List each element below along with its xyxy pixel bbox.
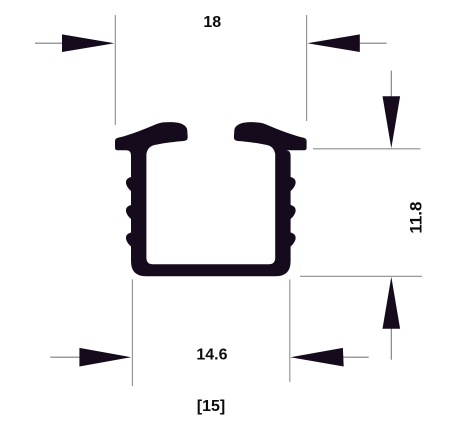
dimension 14.6: left arrow tail [50, 356, 81, 358]
dimension 14.6: right arrow tail [341, 356, 369, 358]
svg-text:18: 18 [203, 14, 221, 31]
dimension 11.8: upper arrow tail [390, 71, 392, 99]
dimension 14.6: right arrowhead [290, 348, 343, 367]
dimension 11.8: up arrowhead [383, 277, 401, 329]
dimension 18: left arrow tail [35, 42, 64, 44]
dimension 18: right extension line [306, 15, 308, 121]
dimension 14.6: left extension line [131, 280, 133, 387]
dimension 11.8: lower arrow tail [390, 327, 392, 360]
dimension 18: right arrow tail [358, 42, 387, 44]
svg-text:11.8: 11.8 [407, 202, 426, 234]
dimension 11.8: top reference line [313, 148, 421, 150]
dimension 14.6: right extension line [289, 280, 291, 383]
extrusion profile cross-section [115, 122, 307, 276]
dimension 18: right arrowhead [307, 34, 360, 52]
dimension 11.8: bottom reference line [300, 275, 422, 277]
dimension 18: left extension line [114, 15, 116, 125]
dimension 11.8: down arrowhead [383, 96, 401, 148]
dimension 18: left arrowhead [62, 34, 115, 52]
dimension 14.6: left arrowhead [79, 348, 131, 367]
svg-text:14.6: 14.6 [196, 347, 227, 364]
svg-text:[15]: [15] [197, 398, 225, 415]
